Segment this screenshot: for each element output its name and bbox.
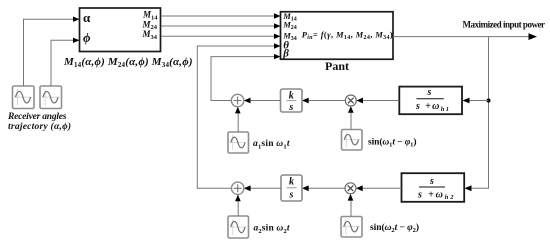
wire M14 xyxy=(161,15,275,17)
wire output Pant xyxy=(393,36,530,38)
svg-text:α: α xyxy=(83,10,91,25)
sine source 1 (a1 sin w1 t) xyxy=(228,132,249,153)
wire TF1 to mult1 xyxy=(362,100,399,102)
wire mult1 to k/s 1 xyxy=(308,100,345,102)
svg-text:M14(α,ϕ) M24(α,ϕ) M34(α,ϕ): M14(α,ϕ) M24(α,ϕ) M34(α,ϕ) xyxy=(63,56,193,69)
wire sine4 to mult2 xyxy=(350,200,352,217)
sine source 4 (sin(w2t-phi2)) xyxy=(341,217,362,238)
svg-text:k: k xyxy=(289,90,294,101)
wire junction to TF1 xyxy=(469,100,489,102)
sine source B (phi) xyxy=(40,86,62,109)
wire k/s1 to sum1 xyxy=(250,100,281,102)
svg-text:s: s xyxy=(427,87,432,98)
junction dot xyxy=(487,99,491,103)
svg-text:sin(ω2t − φ2): sin(ω2t − φ2) xyxy=(370,222,419,234)
block M(alpha,phi) xyxy=(80,8,161,52)
sine source 3 (a2 sin w2 t) xyxy=(228,216,249,238)
summer sum1 xyxy=(231,94,243,106)
sine source A (alpha) xyxy=(13,86,35,109)
wire M24 xyxy=(161,25,275,27)
wire phi xyxy=(51,40,74,86)
block Pant xyxy=(281,11,394,59)
svg-text:s: s xyxy=(429,176,434,187)
wire feedback vertical xyxy=(471,37,489,189)
wire TF2 to mult2 xyxy=(362,187,402,189)
svg-text:ϕ: ϕ xyxy=(83,30,91,45)
wire M34 xyxy=(161,35,275,37)
multiplier X1 xyxy=(345,95,356,106)
wire sine3 to sum2 xyxy=(237,200,239,216)
wire sum1 to beta input xyxy=(211,57,275,101)
summer sum2 xyxy=(232,182,244,194)
wire sine2 to mult1 xyxy=(350,112,352,130)
TF2 block s/(s+wh2) xyxy=(402,173,465,202)
svg-text:k: k xyxy=(289,176,294,187)
gain block k/s 1 xyxy=(281,89,303,113)
svg-text:trajectory (α,ϕ): trajectory (α,ϕ) xyxy=(8,121,71,132)
wire alpha xyxy=(24,19,75,86)
wire mult2 to k/s 2 xyxy=(308,187,345,189)
sine source 2 (sin(w1t-phi1)) xyxy=(342,130,363,151)
wire k/s2 to sum2 xyxy=(250,187,281,189)
gain block k/s 2 xyxy=(281,175,302,201)
svg-text:s: s xyxy=(289,189,294,200)
svg-text:Pant: Pant xyxy=(325,59,349,73)
wire sum2 to theta input xyxy=(197,46,275,188)
svg-text:sin(ω1t − φ1): sin(ω1t − φ1) xyxy=(368,137,417,149)
TF1 block s/(s+wh1) xyxy=(399,87,462,115)
svg-text:Maximized input power: Maximized input power xyxy=(463,20,546,30)
multiplier X2 xyxy=(345,183,356,194)
svg-text:β: β xyxy=(282,47,289,59)
svg-text:Receiver angles: Receiver angles xyxy=(7,112,67,122)
wire sine1 to sum1 xyxy=(237,112,239,132)
svg-text:s: s xyxy=(288,102,293,113)
